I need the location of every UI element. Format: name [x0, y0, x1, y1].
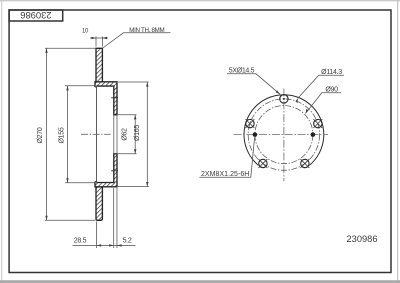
- bolt hole edge in flange top: [111, 97, 118, 99]
- horizontal centerline right view: [234, 134, 329, 136]
- min thickness leader line: [103, 33, 171, 48]
- hat wall and mounting flange outline top: [95, 82, 117, 115]
- svg-text:Ø155: Ø155: [58, 127, 65, 143]
- dia 165 extension line top: [118, 81, 149, 83]
- svg-text:Ø90: Ø90: [325, 87, 338, 94]
- ring inner face visible edge: [96, 86, 98, 182]
- leader dia 90: [306, 93, 342, 114]
- hat lip edge top: [95, 86, 96, 88]
- svg-text:5XØ14.5: 5XØ14.5: [229, 68, 255, 75]
- dia 270 extension line bottom: [45, 219, 96, 221]
- svg-text:Ø165: Ø165: [134, 125, 141, 141]
- leader arrow dia 114.3: [295, 98, 297, 103]
- dia 62 dimension line: [134, 115, 136, 154]
- cross mark hole bottom left: [258, 159, 267, 168]
- thickness 10 extension line right: [101, 37, 103, 47]
- bolt hole edge in flange bottom: [111, 170, 118, 172]
- cross mark hole bottom right: [300, 159, 309, 168]
- svg-text:2XM8X1.25-6H: 2XM8X1.25-6H: [201, 171, 249, 178]
- thickness 10 dimension line: [90, 37, 108, 39]
- leader 5X dia 14.5: [227, 74, 280, 94]
- dia 165 arrows: [146, 82, 148, 187]
- M8 thread hole right (filled): [311, 132, 316, 137]
- 28.5 arrows: [97, 244, 114, 246]
- bolt hole bottom left: [259, 159, 267, 167]
- svg-text:230986: 230986: [346, 234, 377, 244]
- M8 thread hole left (filled): [253, 132, 258, 137]
- svg-text:Ø270: Ø270: [37, 127, 44, 143]
- page bottom band: [0, 280, 400, 283]
- section hatch bottom half (disc ring, hat wall, flange): [95, 154, 117, 221]
- bolt hole bottom right: [301, 159, 309, 167]
- leader dia 114.3: [298, 75, 344, 98]
- flange outer circle (open at bottom): [244, 95, 324, 166]
- bolt hole left: [246, 119, 254, 127]
- leader arrow dia 90: [306, 109, 309, 114]
- thickness 10 arrows: [91, 37, 107, 39]
- dia 155 extension line top: [65, 85, 95, 87]
- svg-text:MIN TH. 8MM: MIN TH. 8MM: [129, 27, 164, 34]
- dia 270 dimension line: [46, 48, 48, 220]
- dia 270 arrows: [45, 48, 47, 220]
- hat wall and mounting flange outline bottom: [95, 154, 117, 187]
- thickness 10 extension line left: [95, 37, 97, 47]
- centre bore edge right: [116, 115, 118, 154]
- top hole centre dot: [283, 98, 285, 100]
- page edge line left: [1, 0, 3, 283]
- svg-text:28.5: 28.5: [74, 238, 87, 245]
- hat lip edge bottom: [95, 181, 96, 183]
- bolt hole right: [314, 119, 322, 127]
- svg-text:10: 10: [82, 29, 89, 35]
- bottom dimension line 28.5 and 5.2: [73, 244, 136, 246]
- dia 90 circle (dash-dot): [255, 106, 313, 164]
- leader 2XM8: [199, 137, 254, 177]
- centre bore edge left: [113, 115, 115, 154]
- friction ring outline top: [96, 48, 102, 82]
- svg-text:Ø62: Ø62: [122, 128, 129, 141]
- dia 62 extension line bottom: [118, 153, 137, 155]
- bolt circle dia 114.3 (dash-dot): [248, 99, 319, 170]
- 5.2 extension line at flange outer face: [116, 188, 118, 248]
- dia 62 extension line top: [118, 114, 137, 116]
- bolt hole top: [280, 95, 288, 103]
- page edge line top: [0, 0, 400, 2]
- dia 155 dimension line: [67, 86, 69, 183]
- page edge line right: [397, 0, 399, 283]
- 28.5 extension line at ring face: [96, 222, 98, 249]
- dia 62 arrows: [134, 115, 136, 154]
- cross mark hole right: [313, 119, 322, 128]
- dia 165 extension line bottom: [118, 186, 149, 188]
- cross mark hole left: [246, 119, 255, 128]
- section hatch top half (disc ring, hat wall, flange): [95, 48, 117, 115]
- dia 165 dimension line: [146, 82, 148, 187]
- 5.2 extension line at flange inner face: [113, 188, 115, 248]
- leader arrow 5X dia 14.5: [276, 90, 280, 94]
- dia 155 extension line bottom: [65, 182, 95, 184]
- svg-text:Ø114.3: Ø114.3: [321, 69, 342, 76]
- 5.2 arrow: [117, 244, 122, 246]
- dia 270 extension line top: [45, 47, 96, 49]
- axis centerline left view: [81, 133, 111, 135]
- vertical centerline right view: [283, 89, 285, 182]
- svg-text:230986: 230986: [20, 10, 51, 21]
- svg-text:5.2: 5.2: [123, 238, 132, 245]
- title block box: [9, 10, 63, 21]
- friction ring outline bottom (rounded end): [96, 187, 102, 221]
- dia 155 arrows: [66, 86, 68, 183]
